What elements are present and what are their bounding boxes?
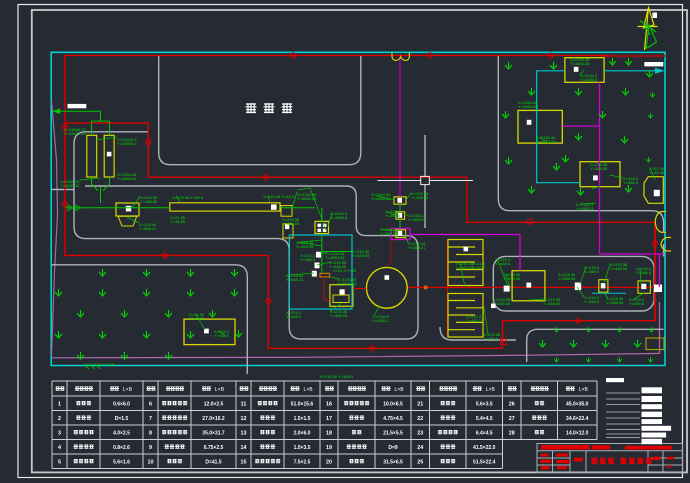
svg-text:X=215.36Y=458.55: X=215.36Y=458.55 <box>558 272 576 281</box>
svg-text:X=215.36Y=458.55: X=215.36Y=458.55 <box>493 297 511 306</box>
leader lines <box>80 70 655 335</box>
svg-text:35.0×31.7: 35.0×31.7 <box>202 430 225 436</box>
svg-text:1.0×3.5: 1.0×3.5 <box>294 445 311 451</box>
magenta east run <box>410 235 520 271</box>
svg-text:X=215.4Y=458.5: X=215.4Y=458.5 <box>636 266 652 275</box>
svg-text:28: 28 <box>509 430 515 436</box>
svg-text:14.0×12.0: 14.0×12.0 <box>566 430 589 436</box>
svg-text:6.75×2.5: 6.75×2.5 <box>204 445 224 451</box>
svg-text:X=215.36Y=458.55: X=215.36Y=458.55 <box>380 227 398 236</box>
table header row <box>55 387 132 393</box>
gate symbol east <box>655 212 671 252</box>
maroon drop to clarifier <box>388 240 392 267</box>
NE building B1 guard <box>565 58 604 83</box>
fine screen box A <box>281 206 292 217</box>
svg-text:X=21.36Y=45.55: X=21.36Y=45.55 <box>189 312 205 321</box>
svg-text:7: 7 <box>149 416 152 422</box>
svg-text:12.0×2.5: 12.0×2.5 <box>204 401 224 407</box>
svg-text:13: 13 <box>241 430 247 436</box>
NE lawn grass <box>502 58 655 195</box>
magenta NE buildings drop <box>562 82 599 254</box>
svg-text:5.4×4.5: 5.4×4.5 <box>476 416 493 422</box>
svg-text:X=215.36Y=458.55: X=215.36Y=458.55 <box>411 191 429 200</box>
comb upper door <box>464 247 469 252</box>
tank T1 inlet flotation <box>87 135 97 177</box>
placeholder sections <box>87 58 664 350</box>
svg-text:X=215.4Y=458.5: X=215.4Y=458.5 <box>495 257 511 266</box>
svg-text:X=215.36Y=458.55: X=215.36Y=458.55 <box>456 261 474 270</box>
cyan site boundary <box>51 52 665 365</box>
red property boundary <box>65 55 655 348</box>
row house w4 <box>654 285 662 293</box>
svg-text:D=1.5: D=1.5 <box>115 416 129 422</box>
red line combs feed <box>447 240 449 338</box>
violet bottom line <box>52 302 660 358</box>
svg-text:16: 16 <box>326 401 332 407</box>
grit tank small box 1 <box>394 197 406 204</box>
svg-text:X=215.4Y=458.5: X=215.4Y=458.5 <box>584 295 600 304</box>
north arrow N label <box>653 13 658 19</box>
gate symbol north <box>392 53 409 61</box>
svg-text:5: 5 <box>58 459 61 465</box>
NE building B3 canteen <box>580 162 620 187</box>
north arrow <box>638 8 658 51</box>
svg-text:X=215.44Y=458.21: X=215.44Y=458.21 <box>408 241 426 250</box>
tank T2 door dot <box>107 152 112 157</box>
svg-text:6.4×4.5: 6.4×4.5 <box>476 430 493 436</box>
svg-text:2.0×6.0: 2.0×6.0 <box>294 430 311 436</box>
svg-text:41.5×22.0: 41.5×22.0 <box>473 445 496 451</box>
red clarifier link <box>353 288 367 290</box>
svg-text:31.5×6.5: 31.5×6.5 <box>383 459 403 465</box>
svg-text:26: 26 <box>509 401 515 407</box>
road right edge to admin <box>663 244 665 257</box>
svg-text:23: 23 <box>417 430 423 436</box>
svg-text:X=2154.36Y=4583.55: X=2154.36Y=4583.55 <box>117 172 137 181</box>
svg-text:X=2154.3Y=4583.5: X=2154.3Y=4583.5 <box>330 211 348 220</box>
svg-text:10.0×6.5: 10.0×6.5 <box>383 401 403 407</box>
svg-text:34.6×22.4: 34.6×22.4 <box>566 416 589 422</box>
red drawing title <box>591 458 652 464</box>
svg-text:X=215.36Y=458.55: X=215.36Y=458.55 <box>282 217 300 226</box>
selection grip squares chain <box>316 252 321 258</box>
fine screen box B <box>283 224 293 238</box>
svg-text:8: 8 <box>149 430 152 436</box>
red feed line building row <box>407 286 655 288</box>
long screen channel <box>170 203 280 211</box>
svg-text:X=215.36 Y=458.5: X=215.36 Y=458.5 <box>320 374 354 379</box>
row small house w1 <box>504 286 510 292</box>
sludge pump house <box>330 285 353 307</box>
svg-text:9: 9 <box>149 445 152 451</box>
A2O comb tank lower <box>448 294 483 338</box>
red boundary corner jog <box>654 222 656 320</box>
svg-text:22: 22 <box>417 416 423 422</box>
svg-text:45.0×35.0: 45.0×35.0 <box>566 401 589 407</box>
svg-text:X=21.3Y=45.5: X=21.3Y=45.5 <box>472 261 486 270</box>
svg-text:X=21.3 Y=45: X=21.3 Y=45 <box>333 268 357 273</box>
svg-text:L×B: L×B <box>215 387 225 393</box>
svg-text:1: 1 <box>58 401 61 407</box>
svg-text:X=215.4Y=458.2: X=215.4Y=458.2 <box>286 310 302 319</box>
svg-text:X=215.36Y=458.55: X=215.36Y=458.55 <box>352 249 370 258</box>
magenta to clarifier <box>394 239 400 242</box>
svg-text:X=215.4Y=458.5: X=215.4Y=458.5 <box>584 265 600 274</box>
title block red stamp bars <box>541 445 675 469</box>
SE lawn grass <box>539 327 654 362</box>
svg-text:X=215.36 Y=458: X=215.36 Y=458 <box>84 362 115 367</box>
svg-text:25: 25 <box>417 459 423 465</box>
svg-text:X=2154.25Y=4583.14: X=2154.25Y=4583.14 <box>60 179 80 188</box>
small orange weir <box>320 273 330 277</box>
comb lower door <box>491 304 496 309</box>
svg-text:D=41.5: D=41.5 <box>205 459 221 465</box>
magenta admin east <box>600 254 665 287</box>
green main process line west <box>53 111 400 273</box>
svg-text:X=2154.3Y=4583.5: X=2154.3Y=4583.5 <box>408 213 426 222</box>
road SE lawn curve <box>527 329 664 362</box>
dosing box in magenta frame <box>391 229 410 240</box>
maroon weir drop <box>324 277 330 300</box>
svg-text:X=2154.36Y=4583.55: X=2154.36Y=4583.55 <box>325 251 345 260</box>
right legend ruling lines <box>606 393 640 438</box>
right legend white bars <box>606 378 671 444</box>
svg-text:27: 27 <box>509 416 515 422</box>
road NE lawn block <box>498 56 663 233</box>
svg-text:19: 19 <box>326 445 332 451</box>
svg-text:11: 11 <box>241 401 247 407</box>
svg-text:X=21546.25Y=45832.14: X=21546.25Y=45832.14 <box>64 127 86 136</box>
svg-text:0.8×2.6: 0.8×2.6 <box>113 445 130 451</box>
violet contour line left <box>52 100 58 356</box>
svg-text:X=21543.6Y=45836.2: X=21543.6Y=45836.2 <box>117 137 137 146</box>
svg-text:18: 18 <box>326 430 332 436</box>
svg-text:2: 2 <box>58 416 61 422</box>
svg-text:L×B: L×B <box>304 387 314 393</box>
svg-text:X=215.36Y=458.55: X=215.36Y=458.55 <box>606 296 624 305</box>
road SW lawn <box>51 265 247 374</box>
svg-text:3: 3 <box>58 430 61 436</box>
cyan contact tank enclosure <box>289 235 352 309</box>
svg-text:X=215.36Y=458.55: X=215.36Y=458.55 <box>590 162 608 171</box>
svg-text:21: 21 <box>417 401 423 407</box>
svg-text:20: 20 <box>326 459 332 465</box>
svg-text:X=2154.36Y=4583.55: X=2154.36Y=4583.55 <box>337 277 357 286</box>
svg-text:5.6×1.6: 5.6×1.6 <box>113 459 130 465</box>
dark red top segment <box>600 55 665 58</box>
white bar NW <box>68 104 87 108</box>
magenta riser north gate <box>399 57 401 197</box>
distribution well hopper <box>118 216 137 226</box>
road admin island <box>493 256 654 311</box>
admin office building <box>512 271 545 301</box>
svg-text:X=215.36Y=458.55: X=215.36Y=458.55 <box>543 297 561 306</box>
SW boundary corner marks <box>85 366 101 369</box>
fine screen door <box>285 225 289 230</box>
SW lawn building <box>184 319 235 345</box>
red markers <box>290 53 295 58</box>
SW lawn grass <box>55 269 242 359</box>
svg-text:6: 6 <box>149 401 152 407</box>
svg-text:21.5×5.5: 21.5×5.5 <box>383 430 403 436</box>
svg-text:4.75×4.5: 4.75×4.5 <box>383 416 403 422</box>
svg-text:12: 12 <box>241 416 247 422</box>
cyan admin stub <box>592 292 626 294</box>
table body cells <box>58 401 589 465</box>
svg-text:X=215.3Y=458.5: X=215.3Y=458.5 <box>300 253 316 262</box>
road stub to west boundary <box>51 189 74 191</box>
svg-text:X=21.36Y=45.55: X=21.36Y=45.55 <box>170 215 186 224</box>
legend table grid <box>52 381 597 469</box>
white bar NE <box>644 62 663 66</box>
svg-text:51.5×22.4: 51.5×22.4 <box>473 459 496 465</box>
A2O comb tank upper <box>448 240 483 286</box>
svg-text:14: 14 <box>241 445 247 451</box>
svg-text:X=2154.3Y=4583.5: X=2154.3Y=4583.5 <box>580 73 598 82</box>
svg-text:X=2154.36Y=4583.55: X=2154.36Y=4583.55 <box>570 57 590 66</box>
svg-text:L×B: L×B <box>123 387 133 393</box>
svg-text:27.0×16.2: 27.0×16.2 <box>202 416 225 422</box>
svg-text:X=215.4Y=458.2: X=215.4Y=458.2 <box>466 314 482 323</box>
NE building B2 dormitory <box>518 110 562 143</box>
svg-text:24: 24 <box>417 445 423 451</box>
svg-text:X=215.36Y=458.55: X=215.36Y=458.55 <box>610 262 628 271</box>
road around reserved plot <box>159 56 361 165</box>
svg-text:10: 10 <box>148 459 154 465</box>
row small house w2 <box>575 283 581 291</box>
tank T2 inlet flotation <box>104 135 114 177</box>
svg-text:4: 4 <box>58 445 61 451</box>
row house b2 <box>599 280 608 293</box>
east edge building B4 <box>644 177 663 204</box>
crosshair cursor <box>378 135 474 228</box>
screen channel door <box>271 204 277 209</box>
clarifier center dot <box>385 275 390 280</box>
svg-text:7.5×2.5: 7.5×2.5 <box>294 459 311 465</box>
svg-text:51.0×15.6: 51.0×15.6 <box>291 401 314 407</box>
svg-text:5.6×3.5: 5.6×3.5 <box>476 401 493 407</box>
distribution well door <box>126 206 131 212</box>
svg-text:X=215.4Y=458.5: X=215.4Y=458.5 <box>629 297 645 306</box>
cyan arrowhead east <box>655 68 665 74</box>
road loop central works <box>74 132 418 339</box>
cyan NE pipe with arrow <box>537 71 662 183</box>
svg-text:D=9: D=9 <box>388 445 398 451</box>
green arrowhead west <box>52 109 60 114</box>
metering flume <box>315 221 329 233</box>
svg-text:X=215.44Y=458.21: X=215.44Y=458.21 <box>139 222 157 231</box>
grit tank small box 2 <box>396 212 405 219</box>
road south of combs <box>440 327 516 340</box>
svg-text:17: 17 <box>326 416 332 422</box>
row house b3 <box>638 281 650 293</box>
svg-text:4.0×2.5: 4.0×2.5 <box>113 430 130 436</box>
reserved land label <box>246 103 293 113</box>
svg-text:L×B: L×B <box>486 387 496 393</box>
green flow symbols <box>68 205 81 211</box>
svg-text:X=215.4Y=458.5: X=215.4Y=458.5 <box>623 176 639 185</box>
SE edge small box <box>646 338 664 350</box>
svg-text:1.5×1.5: 1.5×1.5 <box>294 416 311 422</box>
svg-text:X=215.36Y=458.55: X=215.36Y=458.55 <box>140 195 158 204</box>
svg-text:X=2154.36Y=4583.55: X=2154.36Y=4583.55 <box>518 100 538 109</box>
svg-text:X=215.36Y=458.55: X=215.36Y=458.55 <box>330 309 348 318</box>
svg-text:15: 15 <box>241 459 247 465</box>
distribution well building <box>116 203 139 216</box>
secondary clarifier circle <box>366 267 407 308</box>
svg-text:0.6×6.0: 0.6×6.0 <box>113 401 130 407</box>
svg-text:X=2154.36Y=4583.55: X=2154.36Y=4583.55 <box>536 135 556 144</box>
title block frame <box>537 444 683 473</box>
svg-text:L×B: L×B <box>395 387 405 393</box>
svg-text:L×B: L×B <box>579 387 589 393</box>
